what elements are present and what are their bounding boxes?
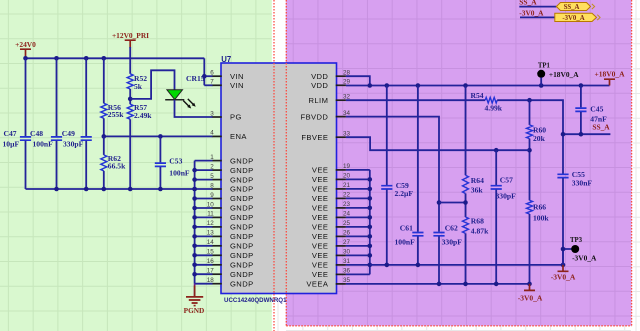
svg-text:GNDP: GNDP xyxy=(230,213,254,222)
wire R64 to R68 xyxy=(465,194,467,218)
junction dot C57 top xyxy=(494,148,499,153)
pin 32 RLIM (right) xyxy=(309,94,351,105)
resistor R57 xyxy=(127,104,133,119)
svg-text:+18V0_A: +18V0_A xyxy=(594,69,625,78)
wire net SS_A row xyxy=(563,133,610,135)
svg-text:FBVEE: FBVEE xyxy=(301,133,328,142)
pin 28 VDD (right) xyxy=(311,70,350,81)
pin 8 GNDP (left) xyxy=(210,182,253,193)
svg-text:GNDP: GNDP xyxy=(230,166,254,175)
pin 35 VEEA (right) xyxy=(306,277,350,288)
svg-text:R68: R68 xyxy=(471,217,484,226)
wire VEE row pin31 extension xyxy=(370,264,563,266)
svg-text:VDD: VDD xyxy=(311,81,328,90)
wire ENA row xyxy=(104,135,213,137)
svg-text:20k: 20k xyxy=(533,134,546,143)
wire VEEA row pin35 xyxy=(346,283,530,285)
pin 6 VIN (left) xyxy=(210,70,244,81)
svg-text:+24V0: +24V0 xyxy=(15,40,36,49)
pin 30 VEE (right) xyxy=(312,249,351,260)
wire +12V0_PRI down to R52 xyxy=(129,47,131,74)
pin 36 VEE (right) xyxy=(312,268,351,279)
capacitor C48 xyxy=(51,137,62,140)
wire C45 bottom lead xyxy=(580,112,582,134)
svg-text:36k: 36k xyxy=(471,186,484,195)
capacitor C59 xyxy=(381,186,392,189)
wire VEE pin bus xyxy=(369,170,371,275)
svg-text:2.2µF: 2.2µF xyxy=(395,189,414,198)
svg-text:RLIM: RLIM xyxy=(309,96,329,105)
wire C57 top lead xyxy=(495,150,497,185)
svg-text:FBVDD: FBVDD xyxy=(301,112,329,121)
wire net SS_A to port xyxy=(519,6,556,8)
white sheet grid xyxy=(278,0,640,331)
wire R60 to R66 xyxy=(529,139,531,201)
svg-text:VEE: VEE xyxy=(312,204,328,213)
port SS_A xyxy=(556,3,590,11)
junction dots ENA row xyxy=(102,134,163,139)
svg-text:VEE: VEE xyxy=(312,185,328,194)
wire R64 top lead xyxy=(465,86,467,176)
svg-text:VEE: VEE xyxy=(312,261,328,270)
svg-text:GNDP: GNDP xyxy=(230,185,254,194)
junction dots VEEA row xyxy=(437,282,532,287)
svg-text:+18V0_A: +18V0_A xyxy=(549,70,579,79)
capacitor C45 xyxy=(575,108,586,111)
wire pin6 VIN xyxy=(204,75,212,77)
svg-text:100k: 100k xyxy=(533,214,549,223)
pin 20 VEE (right) xyxy=(312,173,351,184)
wire LED branch xyxy=(130,70,174,99)
svg-text:C45: C45 xyxy=(590,105,603,114)
pin 33 FBVEE (right) xyxy=(301,131,350,142)
pin 34 FBVDD (right) xyxy=(301,110,351,121)
svg-text:66.5k: 66.5k xyxy=(108,161,126,170)
pin 1 GNDP (left) xyxy=(210,154,253,165)
LED CR15 xyxy=(165,90,196,109)
svg-text:GNDP: GNDP xyxy=(230,279,254,288)
pin 11 GNDP (left) xyxy=(207,211,253,222)
svg-text:-3V0_A: -3V0_A xyxy=(519,8,544,17)
junction dot R60 top xyxy=(527,98,532,103)
pin 15 GNDP (left) xyxy=(207,249,254,260)
wire C45 top lead xyxy=(580,86,582,108)
pin 5 GNDP (left) xyxy=(210,173,253,184)
wire R56 to ENA node xyxy=(103,118,105,136)
svg-text:330pF: 330pF xyxy=(63,139,84,148)
wire R62 bottom lead xyxy=(103,171,105,189)
wire primary ground bus xyxy=(26,188,195,190)
svg-text:CR15: CR15 xyxy=(186,74,205,83)
svg-text:GNDP: GNDP xyxy=(230,175,254,184)
svg-text:SS_A: SS_A xyxy=(592,123,610,132)
junction dots VDD rail xyxy=(368,83,584,88)
capacitor C55 xyxy=(557,174,568,177)
svg-text:VEE: VEE xyxy=(312,242,328,251)
junction dots top bus xyxy=(23,56,206,78)
resistor R64 xyxy=(463,175,469,193)
svg-text:VEE: VEE xyxy=(312,223,328,232)
pin 4 ENA (left) xyxy=(210,130,247,141)
svg-text:GNDP: GNDP xyxy=(230,242,254,251)
pin 12 GNDP (left) xyxy=(207,220,254,231)
svg-text:R54: R54 xyxy=(471,91,484,100)
capacitor C53 xyxy=(155,163,166,166)
wire C62 bottom lead xyxy=(438,236,440,284)
wire R52 to R57 node xyxy=(129,89,131,104)
pin 14 GNDP (left) xyxy=(207,239,254,250)
junction dot FBVEE node at R60 xyxy=(527,148,532,153)
resistor R66 xyxy=(527,200,533,214)
wire node row FBVDD to R64 xyxy=(439,202,466,204)
svg-text:VEE: VEE xyxy=(312,270,328,279)
op-amp / power module U7 body xyxy=(221,63,337,294)
svg-text:4.87k: 4.87k xyxy=(471,227,489,236)
pin 3 PG (left) xyxy=(210,110,241,121)
pin 29 VDD (right) xyxy=(311,79,350,90)
pin 17 GNDP (left) xyxy=(207,268,254,279)
svg-text:VIN: VIN xyxy=(230,81,244,90)
svg-text:GNDP: GNDP xyxy=(230,270,254,279)
pin 22 VEE (right) xyxy=(312,192,351,203)
wire R66 bottom lead xyxy=(529,214,531,284)
wire LED cathode to pin3 PG xyxy=(175,100,213,117)
junction dots ground bus xyxy=(54,187,197,192)
pin 2 GNDP (left) xyxy=(210,163,253,174)
svg-text:10µF: 10µF xyxy=(3,139,20,148)
power symbol +18V0_A xyxy=(604,79,615,85)
svg-text:R66: R66 xyxy=(533,203,546,212)
svg-text:+12V0_PRI: +12V0_PRI xyxy=(112,31,149,40)
junction dot node R52/R57 xyxy=(128,97,133,102)
resistor R56 xyxy=(101,103,107,118)
power symbol -3V0_A (VEE net) xyxy=(558,265,569,271)
wire C48 lead xyxy=(56,58,58,136)
junction dots pin31 row xyxy=(385,263,566,268)
svg-text:GNDP: GNDP xyxy=(230,223,254,232)
svg-text:255k: 255k xyxy=(108,110,124,119)
resistor R68 xyxy=(463,217,469,233)
wire C48 bottom lead xyxy=(56,141,58,189)
svg-text:C49: C49 xyxy=(62,129,75,138)
pin 23 VEE (right) xyxy=(312,201,351,212)
wire R68 bottom lead xyxy=(465,233,467,284)
pin 25 VEE (right) xyxy=(312,220,351,231)
pin 7 VIN (left) xyxy=(210,79,244,90)
svg-text:PG: PG xyxy=(230,113,242,122)
svg-text:VEE: VEE xyxy=(312,213,328,222)
svg-text:TP1: TP1 xyxy=(538,63,551,70)
svg-text:VEE: VEE xyxy=(312,251,328,260)
svg-text:C53: C53 xyxy=(169,156,182,165)
svg-text:29: 29 xyxy=(343,79,351,86)
purple secondary-side region background xyxy=(286,0,632,326)
svg-text:VEE: VEE xyxy=(312,232,328,241)
resistor R54 xyxy=(485,97,497,103)
svg-text:TP3: TP3 xyxy=(570,237,583,244)
wire RLIM row to R54 xyxy=(346,99,485,101)
pin 24 VEE (right) xyxy=(312,211,351,222)
svg-text:5k: 5k xyxy=(134,82,143,91)
svg-text:-3V0_A: -3V0_A xyxy=(562,15,584,22)
pin 27 VEE (right) xyxy=(312,239,351,250)
wire R60 top lead xyxy=(529,100,531,125)
wire C53 top lead xyxy=(159,136,161,162)
wire C49 lead xyxy=(85,58,87,136)
capacitor C61 xyxy=(412,233,423,236)
wire C61 bottom lead xyxy=(417,236,419,265)
wire R57 bottom to ground bus xyxy=(129,119,131,189)
svg-text:GNDP: GNDP xyxy=(230,204,254,213)
port -3V0_A xyxy=(555,13,597,21)
svg-text:330pF: 330pF xyxy=(496,191,517,200)
pin 21 VEE (right) xyxy=(312,182,351,193)
test point TP3 xyxy=(563,249,572,265)
wire pin7 VIN xyxy=(204,84,212,86)
svg-text:PGND: PGND xyxy=(184,306,205,315)
svg-text:C48: C48 xyxy=(30,129,43,138)
wire C53 bottom lead xyxy=(159,167,161,189)
pin 19 VEE (right) xyxy=(312,163,351,174)
junction dot FBVDD/R64 node xyxy=(437,200,442,205)
pin 18 GNDP (left) xyxy=(207,277,254,288)
wires VEE pin stubs xyxy=(346,170,370,275)
wire C47 bottom lead xyxy=(25,141,27,189)
pin 10 GNDP (left) xyxy=(207,201,254,212)
wire C49 bottom lead xyxy=(85,141,87,189)
capacitor C49 xyxy=(81,137,92,140)
svg-text:VEEA: VEEA xyxy=(306,280,328,289)
svg-text:-3V0_A: -3V0_A xyxy=(572,254,597,263)
junction dots VEE bus xyxy=(368,177,373,267)
junction dot R64/R68 node xyxy=(463,200,468,205)
svg-text:-3V0_A: -3V0_A xyxy=(551,273,576,282)
ground symbol PGND xyxy=(186,284,203,306)
wire R56 top lead xyxy=(103,58,105,103)
wire VIN drop to pins 6/7 xyxy=(203,58,205,85)
svg-text:C47: C47 xyxy=(4,129,17,138)
wire VDD rail pin29 to +18V0_A xyxy=(346,85,610,87)
svg-text:330nF: 330nF xyxy=(572,179,593,188)
wire FBVDD path xyxy=(346,117,439,232)
svg-text:100nF: 100nF xyxy=(33,139,54,148)
wire +24V0 top bus xyxy=(26,57,205,59)
wire R54 to C55 column xyxy=(497,100,563,173)
resistor R60 xyxy=(527,125,533,139)
wire pin28 jog xyxy=(346,76,370,85)
svg-text:C62: C62 xyxy=(445,223,458,232)
power symbol -3V0_A (VEEA net) xyxy=(524,284,535,291)
wire C55 bottom lead xyxy=(562,178,564,265)
svg-text:UCC14240QDWNRQ1: UCC14240QDWNRQ1 xyxy=(224,297,287,304)
svg-text:2.49k: 2.49k xyxy=(134,111,152,120)
junction dots GNDP bus xyxy=(192,168,197,277)
svg-text:GNDP: GNDP xyxy=(230,232,254,241)
svg-text:VEE: VEE xyxy=(312,166,328,175)
wires GNDP pin stubs xyxy=(195,161,213,284)
svg-text:100nF: 100nF xyxy=(395,237,416,246)
svg-text:VDD: VDD xyxy=(311,72,328,81)
pin 26 VEE (right) xyxy=(312,230,351,241)
capacitor C47 xyxy=(20,137,31,140)
region border green/right xyxy=(273,0,275,331)
wire net -3V0_A to port xyxy=(520,16,555,18)
svg-text:VEE: VEE xyxy=(312,194,328,203)
svg-text:ENA: ENA xyxy=(230,132,247,141)
test point TP1 xyxy=(537,70,545,78)
wire C57 bottom lead xyxy=(495,190,497,284)
region border purple xyxy=(286,0,631,326)
svg-text:VEE: VEE xyxy=(312,175,328,184)
svg-text:R64: R64 xyxy=(471,176,484,185)
junction dots SS_A row xyxy=(561,132,584,137)
wire FBVEE path xyxy=(346,137,530,150)
capacitor C62 xyxy=(433,233,444,236)
wire R62 top lead xyxy=(103,136,105,155)
resistor R62 xyxy=(101,155,107,171)
svg-text:-3V0_A: -3V0_A xyxy=(518,293,543,302)
wire C47 lead xyxy=(25,58,27,136)
green primary-side region background xyxy=(0,0,272,331)
capacitor C57 xyxy=(491,186,502,189)
svg-text:330pF: 330pF xyxy=(442,237,463,246)
svg-text:GNDP: GNDP xyxy=(230,156,254,165)
power symbol +12V0_PRI xyxy=(125,40,136,48)
svg-text:C61: C61 xyxy=(400,223,413,232)
pin 16 GNDP (left) xyxy=(207,258,254,269)
pin 9 GNDP (left) xyxy=(210,192,253,203)
resistor R52 xyxy=(127,74,133,89)
pin 13 GNDP (left) xyxy=(207,230,254,241)
svg-text:VIN: VIN xyxy=(230,72,244,81)
svg-text:GNDP: GNDP xyxy=(230,194,254,203)
wire C61 top lead xyxy=(417,86,419,232)
svg-text:SS_A: SS_A xyxy=(519,0,537,6)
wire C59 top lead xyxy=(386,86,388,186)
svg-text:U7: U7 xyxy=(221,55,231,64)
junction dot TP3 node xyxy=(561,247,566,252)
svg-text:GNDP: GNDP xyxy=(230,251,254,260)
svg-text:100nF: 100nF xyxy=(169,169,190,178)
svg-text:C57: C57 xyxy=(500,175,513,184)
pin 31 VEE (right) xyxy=(312,258,351,269)
svg-text:4.99k: 4.99k xyxy=(485,104,503,113)
wire C59 bottom lead xyxy=(386,190,388,265)
wire GNDP pin bus xyxy=(194,161,196,284)
svg-text:SS_A: SS_A xyxy=(564,4,580,11)
power symbol +24V0 xyxy=(20,49,31,58)
svg-text:GNDP: GNDP xyxy=(230,261,254,270)
